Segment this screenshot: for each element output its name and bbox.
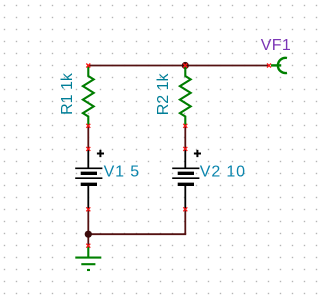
wire: V2 minus terminal down to bottom net — [184, 209, 186, 234]
svg-text:V1 5: V1 5 — [104, 163, 141, 180]
terminal cross: R1 pin 2 (bottom) — [86, 124, 90, 128]
V2 plus polarity mark — [194, 150, 201, 157]
terminal cross: V1 plus pin — [86, 147, 90, 151]
voltage source V2 (battery) — [172, 149, 199, 209]
wire: R1 bottom to V1 plus terminal — [87, 126, 89, 149]
wire: R2 bottom to V2 plus terminal — [184, 126, 186, 149]
node: junction dot at ground (bottom net) — [85, 231, 92, 238]
wire: bottom net from ground node to V2 branch — [88, 233, 186, 235]
node: junction dot at R2 top (top net) — [182, 62, 189, 69]
svg-text:R2 1k: R2 1k — [155, 73, 172, 116]
terminal cross: V2 plus pin — [183, 147, 187, 151]
wire: ground node to ground symbol — [87, 234, 89, 246]
svg-text:R1 1k: R1 1k — [59, 72, 76, 115]
resistor R2 — [180, 66, 191, 126]
terminal cross: probe VF1 pin — [267, 64, 271, 68]
V1 plus polarity mark — [97, 150, 104, 157]
voltage probe VF1 — [271, 58, 287, 73]
terminal cross: R1 pin 1 (top) — [86, 64, 90, 68]
terminal cross: ground pin — [86, 244, 90, 248]
resistor R1 — [83, 66, 94, 126]
svg-text:VF1: VF1 — [261, 37, 291, 54]
wire: top net from R1 top to probe VF1 — [88, 65, 269, 67]
voltage source V1 (battery) — [75, 149, 102, 209]
svg-text:V2 10: V2 10 — [200, 163, 246, 180]
terminal cross: V2 minus pin — [183, 207, 187, 211]
terminal cross: V1 minus pin — [86, 207, 90, 211]
terminal cross: R2 pin 1 at junction — [183, 64, 187, 68]
wire: V1 minus terminal down to ground node — [87, 209, 89, 234]
ground — [75, 246, 101, 270]
terminal cross: R2 pin 2 (bottom) — [183, 124, 187, 128]
